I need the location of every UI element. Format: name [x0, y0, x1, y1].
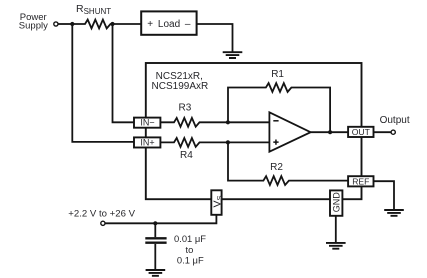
pin OUT label [352, 127, 371, 137]
pin GND [330, 190, 342, 215]
svg-text:OUT: OUT [352, 127, 371, 137]
node E (output junction) [328, 130, 332, 134]
resistor R1 label [271, 69, 284, 80]
resistor R2 [228, 142, 348, 185]
wire: capacitor to ground [154, 244, 156, 270]
op-amp U1A [269, 112, 310, 151]
wire: supply terminal to node A [58, 23, 72, 25]
resistor R4 label [180, 150, 193, 161]
output terminal [391, 130, 395, 134]
pin IN- [134, 118, 160, 128]
power supply terminal [54, 22, 58, 26]
resistor R3 [160, 118, 269, 127]
svg-text:R4: R4 [180, 150, 193, 161]
op-amp inverting marker [273, 120, 278, 122]
svg-text:R1: R1 [271, 69, 284, 80]
resistor RSHUNT [72, 20, 112, 29]
node C (inverting input junction) [226, 120, 230, 124]
node B [110, 22, 114, 26]
node A [70, 22, 74, 26]
pin GND label [331, 192, 341, 213]
svg-text:+ Load –: + Load – [147, 19, 191, 30]
load label [147, 19, 191, 30]
capacitor C1 [145, 238, 166, 242]
wire: op-amp output to OUT pin [311, 131, 349, 133]
wire: node B down to IN- [113, 24, 135, 122]
supply voltage terminal [101, 221, 105, 225]
capacitor C1 value label [174, 233, 206, 266]
output label [380, 115, 410, 126]
svg-text:IN−: IN− [140, 118, 154, 128]
svg-text:0.01 μF: 0.01 μF [174, 233, 206, 244]
IC U1 box [146, 63, 362, 199]
wire: node B to load [113, 23, 142, 25]
wire: OUT pin to output terminal [374, 131, 391, 133]
pin IN+ label [140, 137, 154, 147]
svg-text:+2.2 V to +26 V: +2.2 V to +26 V [68, 209, 135, 220]
ground (C1) [146, 270, 166, 276]
ground (REF) [384, 210, 404, 216]
wire: GND pin to ground [335, 216, 337, 243]
svg-text:IN+: IN+ [140, 137, 154, 147]
pin REF [348, 176, 373, 186]
svg-text:0.1 μF: 0.1 μF [177, 255, 204, 266]
pin VS [211, 190, 221, 215]
pin IN+ [134, 137, 160, 147]
pin OUT [348, 127, 373, 137]
pin VS label [211, 195, 224, 207]
svg-text:Supply: Supply [19, 21, 48, 32]
pin IN- label [140, 118, 154, 128]
wire: node A down to IN+ [72, 24, 134, 142]
wire: cap junction to capacitor [154, 223, 156, 237]
node D (non-inverting input junction) [226, 140, 230, 144]
op-amp non-inverting marker [273, 140, 278, 145]
ground (GND pin) [326, 243, 346, 249]
ground (load) [223, 52, 243, 58]
svg-text:to: to [185, 244, 193, 255]
svg-text:GND: GND [331, 192, 341, 213]
resistor R1 feedback [228, 83, 330, 132]
node F (capacitor junction) [153, 221, 157, 225]
svg-text:Output: Output [380, 115, 410, 126]
svg-text:NCS199AxR: NCS199AxR [152, 81, 209, 92]
load [141, 11, 196, 34]
IC U1 label [152, 71, 209, 92]
wire: supply rail to VS pin [105, 215, 216, 224]
resistor R3 label [179, 102, 192, 113]
power supply label [19, 12, 48, 31]
wire: REF pin to ground [374, 181, 395, 210]
svg-text:R3: R3 [179, 102, 192, 113]
wire: load to ground [197, 24, 233, 52]
svg-text:R2: R2 [270, 162, 283, 173]
svg-text:REF: REF [352, 177, 369, 187]
resistor RSHUNT label [76, 3, 111, 16]
resistor R2 label [270, 162, 283, 173]
supply voltage label [68, 209, 135, 220]
pin REF label [352, 177, 369, 187]
svg-text:RSHUNT: RSHUNT [76, 3, 111, 16]
resistor R4 [160, 138, 269, 147]
